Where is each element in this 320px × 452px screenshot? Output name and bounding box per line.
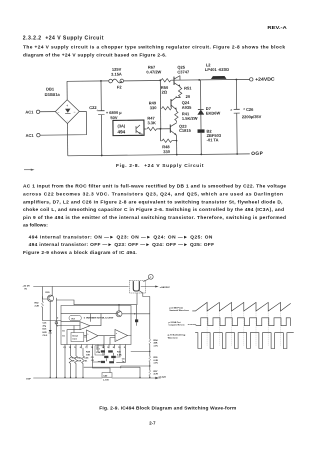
svg-text:3.15A: 3.15A <box>111 72 122 77</box>
svg-text:R52: R52 <box>35 303 40 305</box>
svg-text:pin 9 of the 494 is the emitte: pin 9 of the 494 is the emitter of the i… <box>23 215 286 221</box>
node L2 left <box>198 79 200 81</box>
node R47/R48 <box>160 128 162 130</box>
svg-text:3.3K: 3.3K <box>147 120 156 125</box>
svg-text:+: + <box>66 104 68 108</box>
guide lines <box>207 303 280 346</box>
resistor pin5 net <box>75 356 78 364</box>
svg-text:Wave-form: Wave-form <box>168 337 178 339</box>
svg-text:±1%: ±1% <box>154 345 158 347</box>
svg-text:AC1: AC1 <box>26 133 35 138</box>
svg-text:as follows:: as follows: <box>23 223 48 229</box>
svg-text:C1815: C1815 <box>179 128 192 133</box>
comparator triangle 1 <box>80 322 90 330</box>
494 box <box>113 120 144 137</box>
label F2 <box>117 85 122 90</box>
labels under-IC resistors <box>72 358 89 363</box>
svg-text:choke coil L, and smoothing ca: choke coil L, and smoothing capacitor C … <box>23 207 284 213</box>
resistor pin4 net <box>69 356 72 364</box>
pin numbers <box>63 347 125 349</box>
wire collector up <box>51 287 53 295</box>
label D20 <box>46 292 51 294</box>
transistor Q24 <box>171 97 177 110</box>
svg-text:D21: D21 <box>43 329 48 331</box>
svg-text:C3: C3 <box>91 357 95 359</box>
svg-text:47µ: 47µ <box>43 325 47 328</box>
svg-text:+: + <box>87 333 89 335</box>
wire AC1 upper to bridge <box>40 111 55 113</box>
wire right vertical to output transistor <box>136 293 138 305</box>
transistor Q25 <box>174 76 180 88</box>
box on rail <box>102 373 112 382</box>
rail junction dots <box>64 377 83 378</box>
svg-text:(3A): (3A) <box>117 123 125 128</box>
wire 494 to R47 <box>145 128 147 130</box>
svg-text:5.6K: 5.6K <box>117 354 122 356</box>
svg-text:Fig. 2-9. IC494 Block Diagram: Fig. 2-9. IC494 Block Diagram and Switch… <box>99 405 236 411</box>
error amp triangle 2 <box>115 330 128 342</box>
svg-text:10K: 10K <box>86 354 90 356</box>
waveform label 3 <box>168 334 186 340</box>
resistor chain R55 <box>149 356 151 361</box>
svg-text:R57: R57 <box>154 371 159 373</box>
svg-text:OGP: OGP <box>26 379 31 381</box>
ref regulator oval <box>69 315 81 320</box>
label R67 <box>146 65 161 75</box>
svg-text:AC1: AC1 <box>25 109 34 114</box>
label R51 <box>184 85 192 99</box>
label DB1 <box>45 86 61 97</box>
label R52 <box>35 303 40 308</box>
blob component <box>135 319 138 325</box>
thermal fuse B2 <box>198 129 205 132</box>
label R47 <box>147 116 156 126</box>
annotation C circle <box>144 274 154 281</box>
svg-text:2Ω: 2Ω <box>162 89 168 94</box>
svg-text:OGP: OGP <box>251 151 263 157</box>
wire Q23 emitter down <box>176 135 178 155</box>
internal wires <box>61 314 131 345</box>
wire drive line vertical <box>159 80 162 128</box>
terminal AC1 upper <box>25 109 40 114</box>
resistor pin6 net <box>82 356 85 364</box>
svg-text:C6: C6 <box>122 358 126 360</box>
output transistor dashed box <box>130 281 146 294</box>
svg-text:A935: A935 <box>182 105 192 110</box>
svg-text:p.9 Switching: p.9 Switching <box>168 334 186 337</box>
small component cluster <box>93 348 126 373</box>
label C22 <box>89 105 97 110</box>
terminal +24VDC <box>250 77 276 82</box>
label inhibit/dtm <box>84 318 115 320</box>
wire to +24VDC <box>141 286 171 290</box>
svg-text:2.3.2.2 +24 V Supply Circuit: 2.3.2.2 +24 V Supply Circuit <box>23 35 104 41</box>
extra labels under IC left <box>86 352 95 363</box>
transistor Q23 <box>170 123 176 135</box>
svg-text:9: 9 <box>141 133 143 137</box>
svg-text:~: ~ <box>57 110 59 114</box>
resistor chain R56 <box>149 370 151 375</box>
svg-text:5K: 5K <box>72 360 75 362</box>
svg-text:15: 15 <box>62 336 65 338</box>
resistor R49 <box>161 103 172 110</box>
svg-text:4.7K: 4.7K <box>154 373 159 376</box>
label C21 D21 stack <box>43 323 49 337</box>
svg-text:Dead: Dead <box>73 336 79 338</box>
svg-text:C22: C22 <box>89 105 97 110</box>
svg-text:across C22 becomes 32.3 VDC. T: across C22 becomes 32.3 VDC. Transistors… <box>23 191 283 197</box>
svg-text:6.2K: 6.2K <box>154 360 159 362</box>
wire C22 branch <box>100 81 103 155</box>
svg-text:Compared W. form: Compared W. form <box>169 325 185 327</box>
oscillator box <box>71 333 84 342</box>
label B2 <box>207 128 222 142</box>
svg-text:2200µ/35V: 2200µ/35V <box>242 114 262 119</box>
zener D21 <box>49 330 52 333</box>
label Q23 <box>179 123 192 132</box>
svg-text:R55: R55 <box>154 357 159 359</box>
svg-text:C34: C34 <box>96 351 101 354</box>
svg-text:16: 16 <box>62 331 65 333</box>
IC left edge pin marks <box>57 317 66 337</box>
svg-text:REV.-A: REV.-A <box>267 25 287 30</box>
svg-text:The +24 V supply circuit is a: The +24 V supply circuit is a chopper ty… <box>23 44 285 50</box>
wire node down to R48 <box>161 129 162 141</box>
svg-text:DB1: DB1 <box>46 86 55 91</box>
output transistor U shape <box>133 282 143 294</box>
resistor R47 <box>147 127 170 131</box>
svg-text:D20: D20 <box>46 292 51 294</box>
svg-text:494 internal transistor: OFF —: 494 internal transistor: OFF —► Q23: OFF… <box>29 242 214 248</box>
wire flywheel branch <box>200 80 203 155</box>
svg-text:HZ6: HZ6 <box>43 332 48 334</box>
sub box under IC <box>95 346 105 355</box>
svg-text:AC 1 input from the ROC filter: AC 1 input from the ROC filter unit is f… <box>23 183 286 189</box>
pulse waveform <box>195 333 293 349</box>
svg-text:EKD6W: EKD6W <box>206 110 221 115</box>
svg-text:L-100: L-100 <box>103 380 109 382</box>
svg-text:2: 2 <box>57 317 59 319</box>
svg-text:+24VDC: +24VDC <box>255 77 275 82</box>
svg-text:-01 TA: -01 TA <box>207 137 219 142</box>
svg-text:amplifiers, D7, L2 and C26 in: amplifiers, D7, L2 and C26 in Figure 2-8… <box>23 200 283 206</box>
svg-text:C40: C40 <box>103 374 108 377</box>
svg-text:Fig. 2-8. +24 V Supply Circui: Fig. 2-8. +24 V Supply Circuit <box>116 163 204 169</box>
svg-text:≠: ≠ <box>230 108 232 112</box>
internal transistor circle <box>116 305 122 317</box>
svg-text:R51: R51 <box>184 85 192 90</box>
wire C26 branch <box>235 79 238 155</box>
svg-text:R54: R54 <box>154 339 159 342</box>
svg-text:C8-2: C8-2 <box>43 335 49 337</box>
svg-text:+32 DV: +32 DV <box>23 285 31 287</box>
resistor R41 vertical <box>175 110 179 123</box>
svg-text:C36: C36 <box>84 358 89 360</box>
wire R51 to Q24 <box>176 96 180 98</box>
svg-text:R62: R62 <box>77 358 82 360</box>
svg-text:20: 20 <box>186 94 191 99</box>
wire Q out to right <box>122 313 150 314</box>
pins row <box>65 345 126 349</box>
capacitor C26 <box>230 108 239 113</box>
svg-text:C21: C21 <box>43 323 48 325</box>
transistor D20 <box>47 295 53 301</box>
wire top rail <box>67 79 250 81</box>
cross wire under IC <box>84 367 141 378</box>
svg-text:330: 330 <box>150 105 158 110</box>
diode D7 <box>198 109 204 114</box>
svg-text:time: time <box>73 338 78 341</box>
waveform label 1 <box>169 308 189 312</box>
label R41 <box>182 111 198 121</box>
svg-text:diagram of the +24 V supply ci: diagram of the +24 V supply circuit base… <box>23 53 167 59</box>
IC 494 outline <box>61 306 131 345</box>
extra labels under IC right <box>117 352 125 364</box>
svg-text:t=.1: t=.1 <box>96 348 101 351</box>
resistor R67 <box>161 79 171 83</box>
svg-text:F2: F2 <box>117 85 122 90</box>
sawtooth waveform <box>193 302 291 311</box>
wire emitter down to rail <box>50 301 51 378</box>
waveform label 2 <box>169 321 193 327</box>
wire input rail <box>34 287 129 300</box>
svg-text:0.47/2W: 0.47/2W <box>146 69 161 74</box>
svg-text:±1.3µΩ: ±1.3µΩ <box>159 376 167 378</box>
svg-text:D3SB1a: D3SB1a <box>45 92 61 97</box>
resistor R51 vertical <box>178 87 182 97</box>
svg-text:2.2K: 2.2K <box>35 305 40 307</box>
label C26 <box>242 107 262 120</box>
svg-text:494 internal transistor: ON —►: 494 internal transistor: ON —► Q23: ON —… <box>29 234 213 240</box>
resistor R48 <box>162 139 177 143</box>
bridge rectifier DB1 <box>55 100 79 124</box>
label Q24 <box>182 100 192 110</box>
square waveform <box>193 318 291 326</box>
label +32 DV IN <box>23 285 31 290</box>
label L2 <box>205 62 229 72</box>
error amp triangle 1 <box>87 330 99 342</box>
svg-text:10K: 10K <box>77 360 81 362</box>
svg-text:+24VDC: +24VDC <box>160 286 171 289</box>
label OGP <box>251 151 263 157</box>
terminal AC1 lower <box>26 133 41 138</box>
label R48 <box>162 144 171 154</box>
svg-text:50V: 50V <box>110 115 118 120</box>
svg-text:1 INHIBIT/DTM-CONT: 1 INHIBIT/DTM-CONT <box>84 318 115 320</box>
svg-text:±1%: ±1% <box>154 363 158 365</box>
feedback divider chain <box>143 293 151 378</box>
under-IC vertical wires <box>65 348 83 378</box>
svg-text:C3747: C3747 <box>177 69 190 74</box>
wire bridge top <box>66 81 68 99</box>
wire bottom rail <box>68 154 250 156</box>
stray arrow mark <box>24 169 35 171</box>
svg-text:330: 330 <box>163 149 171 154</box>
wire bridge bottom <box>66 123 68 155</box>
capacitor C22 <box>96 108 104 114</box>
wire second vertical <box>55 298 61 378</box>
label R50 <box>161 85 169 95</box>
svg-text:Sawtooth Wave-form: Sawtooth Wave-form <box>169 309 189 312</box>
svg-text:* C26: * C26 <box>243 107 254 112</box>
svg-text:.01: .01 <box>84 360 88 362</box>
feedback taps <box>121 351 151 368</box>
svg-text:IN: IN <box>25 288 28 290</box>
bottom rail <box>26 377 161 381</box>
svg-text:43K: 43K <box>154 342 158 345</box>
wire AC1 lower to bridge right vertex <box>40 111 87 135</box>
node R67 left <box>159 79 161 81</box>
svg-text:2-7: 2-7 <box>149 420 156 425</box>
svg-text:~: ~ <box>74 110 76 114</box>
label Q25 <box>177 65 190 75</box>
resistor R52 <box>41 297 61 321</box>
svg-text:LP401 -62SD: LP401 -62SD <box>205 67 229 72</box>
svg-text:1.5K/2W: 1.5K/2W <box>182 116 198 121</box>
label D7 <box>206 106 221 116</box>
svg-text:+: + <box>116 333 118 335</box>
internal top wire <box>61 313 117 315</box>
svg-text:R31: R31 <box>117 352 122 354</box>
svg-text:p.3 E/A Out: p.3 E/A Out <box>169 321 181 324</box>
svg-text:Ref: Ref <box>72 318 76 320</box>
svg-text:R28: R28 <box>86 352 91 354</box>
value C22 <box>106 110 123 120</box>
svg-text:Figure 2-9 shows a block diagr: Figure 2-9 shows a block diagram of IC 4… <box>23 250 137 256</box>
resistor chain R54 <box>149 339 151 344</box>
fuse F2 <box>109 79 124 83</box>
node C22 bottom <box>101 155 103 157</box>
node C22 top <box>100 80 102 82</box>
labels chain <box>154 339 167 379</box>
svg-text:C: C <box>150 277 152 279</box>
value fuse 125V 3.15A <box>111 67 122 77</box>
feed wire to internal transistor <box>56 300 136 319</box>
inductor L2 <box>211 76 227 79</box>
label R49 <box>149 100 158 110</box>
svg-text:494: 494 <box>118 129 126 134</box>
